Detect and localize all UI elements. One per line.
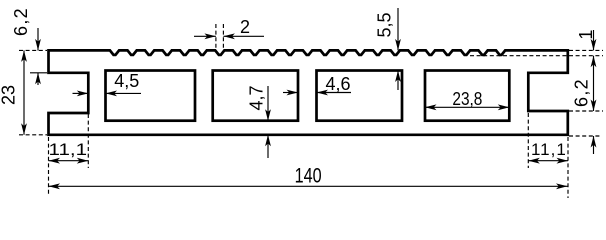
svg-text:6,2: 6,2	[11, 7, 31, 36]
svg-text:4,6: 4,6	[325, 74, 350, 94]
svg-text:6,2: 6,2	[572, 78, 592, 107]
svg-text:11,1: 11,1	[49, 140, 88, 159]
svg-text:23: 23	[0, 85, 19, 105]
svg-text:1: 1	[576, 30, 596, 40]
svg-text:4,5: 4,5	[114, 71, 139, 91]
svg-text:4,7: 4,7	[247, 85, 267, 110]
svg-text:2: 2	[240, 17, 250, 37]
svg-text:140: 140	[295, 164, 322, 188]
svg-text:23,8: 23,8	[452, 89, 482, 109]
svg-text:11,1: 11,1	[531, 140, 567, 159]
svg-text:5,5: 5,5	[375, 12, 395, 37]
